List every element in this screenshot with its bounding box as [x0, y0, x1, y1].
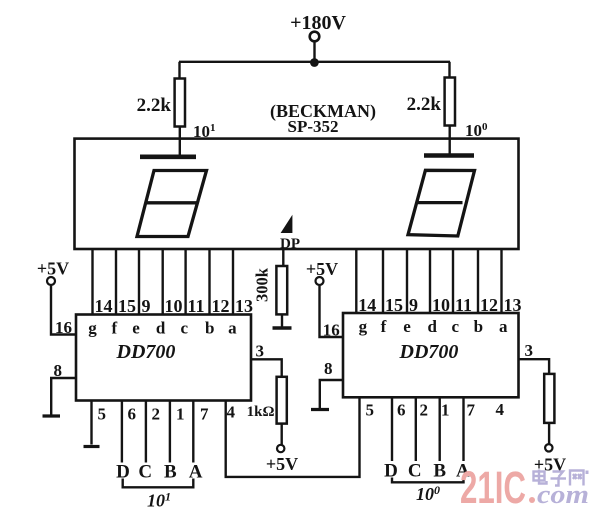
svg-text:B: B	[164, 462, 177, 483]
svg-text:16: 16	[55, 318, 72, 337]
svg-text:1kΩ: 1kΩ	[247, 404, 275, 420]
svg-text:2: 2	[152, 405, 161, 424]
svg-text:C: C	[138, 462, 152, 483]
svg-text:300k: 300k	[253, 267, 272, 302]
svg-text:c: c	[181, 319, 189, 338]
svg-text:e: e	[403, 317, 411, 336]
U2 pin 1 wire (input B)	[169, 401, 171, 463]
anode bar digit 0	[424, 153, 474, 158]
svg-text:2: 2	[420, 401, 429, 420]
U3 pin 7 wire (input A)	[462, 397, 464, 461]
bracket under DCBA (tens)	[123, 479, 194, 488]
wire R4 to +5V terminal	[281, 424, 283, 445]
resistor R1 2.2k body	[175, 79, 185, 127]
U2 pin 5 wire to ground	[90, 401, 92, 445]
svg-text:2.2k: 2.2k	[137, 95, 172, 116]
svg-text:16: 16	[323, 321, 340, 340]
svg-text:f: f	[381, 317, 387, 336]
svg-text:5: 5	[366, 401, 375, 420]
svg-text:+5V: +5V	[266, 454, 298, 474]
wire U2 pin3 to R4	[251, 359, 282, 377]
decimal point DP triangle	[281, 215, 293, 233]
svg-text:DD700: DD700	[116, 341, 176, 363]
wire +5V to U2 pin16	[51, 285, 76, 335]
svg-text:7: 7	[200, 405, 209, 424]
wire R3 to common	[281, 314, 283, 327]
svg-text:7: 7	[467, 401, 476, 420]
svg-text:21IC: 21IC	[460, 462, 526, 513]
digit 8 (units) outline	[408, 170, 475, 236]
svg-text:8: 8	[324, 359, 333, 378]
wire R5 to +5V terminal	[548, 423, 550, 444]
wire bus to R1	[178, 62, 180, 79]
watermark wang char	[570, 471, 584, 486]
node +5V (left) terminal	[47, 277, 55, 285]
anode bar digit 1	[140, 155, 196, 160]
svg-text:1: 1	[176, 405, 185, 424]
ground (U2 pin5)	[84, 445, 100, 448]
svg-text:5: 5	[98, 405, 107, 424]
terminal bar under R3	[273, 326, 292, 329]
wire U2 pin4 to U3 pin5 (cascade)	[226, 397, 360, 477]
resistor R4 1k body	[277, 377, 287, 424]
svg-text:10: 10	[165, 296, 183, 316]
svg-text:4: 4	[227, 403, 236, 422]
display U1 outline box	[75, 139, 519, 249]
svg-text:2.2k: 2.2k	[407, 94, 442, 115]
bracket under DCBA (units)	[392, 478, 464, 483]
wire +180V horizontal bus	[179, 61, 450, 63]
node +5V (mid) terminal	[316, 277, 324, 285]
wire terminal to bus	[313, 42, 315, 63]
U2 pin 6 wire (input D)	[121, 401, 123, 463]
node +180V terminal circle	[310, 32, 320, 42]
svg-text:13: 13	[235, 296, 253, 316]
svg-text:15: 15	[118, 296, 136, 316]
svg-text:4: 4	[496, 400, 505, 419]
ground (U3 pin8)	[311, 408, 329, 411]
svg-text:SP-352: SP-352	[288, 117, 339, 136]
svg-text:c: c	[452, 317, 460, 336]
svg-text:6: 6	[128, 405, 137, 424]
ground (U2 pin8)	[43, 414, 61, 417]
svg-text:14: 14	[95, 296, 113, 316]
wire +5V to U3 pin16	[320, 285, 344, 337]
svg-text:f: f	[111, 319, 117, 338]
svg-text:d: d	[427, 317, 437, 336]
svg-text:3: 3	[256, 342, 265, 361]
svg-text:b: b	[205, 319, 214, 338]
svg-text:1: 1	[441, 401, 450, 420]
svg-text:6: 6	[397, 401, 406, 420]
svg-text:d: d	[156, 319, 166, 338]
wire U2 pin8 to ground	[51, 378, 76, 415]
wire R1 to display anode	[179, 127, 181, 156]
wire U3 pin3 to R5	[519, 359, 550, 374]
svg-text:e: e	[132, 319, 140, 338]
IC U3 DD700 box	[343, 313, 519, 397]
wire U3 pin8 to ground	[320, 380, 343, 408]
U3 pin 2 wire (input C)	[415, 397, 417, 461]
right pin number labels 14 15 9 10 11 12 13	[358, 295, 521, 315]
svg-text:DD700: DD700	[399, 341, 459, 363]
svg-text:A: A	[189, 462, 203, 483]
right display pin wires (g f e d c b a)	[355, 249, 357, 313]
watermark dot	[529, 497, 535, 503]
U2 pin 7 wire (input A)	[192, 401, 194, 463]
svg-text:a: a	[499, 317, 508, 336]
watermark dian char	[534, 470, 547, 484]
svg-text:3: 3	[525, 341, 534, 360]
svg-text:g: g	[88, 319, 97, 338]
digit 8 (tens) outline	[137, 171, 207, 237]
resistor R5 1k body	[544, 374, 554, 423]
svg-text:B: B	[433, 461, 446, 482]
svg-text:11: 11	[188, 296, 205, 316]
svg-text:+180V: +180V	[290, 12, 346, 34]
svg-text:C: C	[408, 461, 422, 482]
svg-text:g: g	[359, 317, 368, 336]
U3 segment labels g f e d c b a	[359, 317, 508, 336]
U2 segment labels g f e d c b a	[88, 319, 237, 338]
wire bus to R2	[448, 62, 450, 78]
svg-text:a: a	[228, 319, 237, 338]
svg-text:+5V: +5V	[306, 259, 338, 279]
resistor R2 2.2k body	[445, 78, 455, 126]
svg-text:+5V: +5V	[37, 259, 69, 279]
left display pin wires (g f e d c b a)	[91, 249, 93, 315]
U3 pin 1 wire (input B)	[439, 397, 441, 461]
junction dot +180V bus	[310, 58, 319, 67]
left pin number labels 14 15 9 10 11 12 13	[95, 296, 254, 316]
node +5V (right) terminal	[545, 444, 552, 451]
node +5V (below R4) terminal	[277, 445, 284, 452]
IC U2 DD700 box	[76, 315, 251, 401]
watermark tm mark	[586, 471, 589, 475]
svg-text:9: 9	[142, 296, 151, 316]
U3 pin 6 wire (input D)	[391, 397, 393, 461]
svg-text:b: b	[474, 317, 483, 336]
wire R2 to display anode	[449, 126, 451, 155]
watermark zi char	[551, 472, 567, 486]
wire DP to R3	[282, 249, 284, 267]
resistor R3 300k body	[276, 266, 287, 314]
U2 pin 2 wire (input C)	[145, 401, 147, 463]
svg-text:12: 12	[212, 296, 230, 316]
